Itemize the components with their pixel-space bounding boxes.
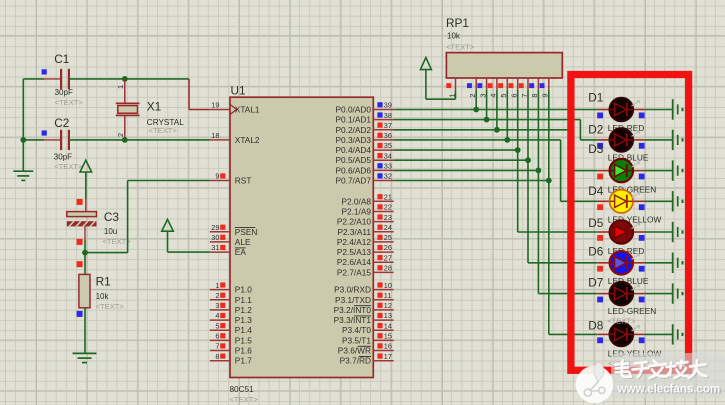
pin 29 PSEN bbox=[210, 223, 258, 237]
svg-text:PSEN: PSEN bbox=[235, 227, 258, 237]
pin 39 P0.0/AD0 bbox=[335, 101, 393, 115]
svg-text:2: 2 bbox=[215, 291, 219, 300]
svg-text:D8: D8 bbox=[588, 319, 604, 333]
wire RP1 pin 5 column bbox=[506, 90, 508, 140]
svg-text:13: 13 bbox=[384, 311, 392, 320]
svg-text:11: 11 bbox=[384, 291, 392, 300]
wire P0.7 to pull-up bbox=[394, 180, 549, 182]
wire D4 cathode bbox=[645, 200, 673, 202]
node junction crystal bottom bbox=[122, 137, 128, 143]
highlight box bbox=[571, 75, 689, 371]
watermark logo bbox=[576, 362, 614, 404]
pin 33 P0.6/AD6 bbox=[335, 162, 393, 176]
svg-text:27: 27 bbox=[384, 253, 392, 262]
svg-text:10k: 10k bbox=[447, 32, 461, 41]
wire RP1 pin 3 column bbox=[486, 90, 488, 120]
svg-text:10u: 10u bbox=[104, 227, 117, 236]
svg-text:26: 26 bbox=[384, 243, 392, 252]
pin 13 P3.3/INT1 bbox=[334, 311, 394, 325]
svg-text:29: 29 bbox=[211, 223, 219, 232]
power terminal RP1 bbox=[420, 58, 455, 100]
svg-text:10k: 10k bbox=[96, 292, 110, 301]
svg-text:12: 12 bbox=[384, 301, 392, 310]
ground terminal D2 bbox=[673, 130, 683, 150]
svg-text:P2.1/A9: P2.1/A9 bbox=[341, 207, 371, 217]
svg-text:32: 32 bbox=[384, 172, 392, 181]
svg-text:XTAL2: XTAL2 bbox=[235, 135, 260, 145]
svg-text:30pF: 30pF bbox=[55, 88, 73, 97]
svg-text:21: 21 bbox=[384, 193, 392, 202]
pin 8 RP1 bbox=[529, 78, 539, 98]
pin 21 P2.0/A8 bbox=[341, 193, 393, 207]
pin 16 P3.6/WR bbox=[338, 342, 394, 356]
svg-text:XTAL1: XTAL1 bbox=[235, 105, 260, 115]
svg-text:23: 23 bbox=[384, 213, 392, 222]
svg-text:EA: EA bbox=[235, 247, 247, 257]
resistor R1 bbox=[77, 253, 125, 354]
svg-text:P3.1/TXD: P3.1/TXD bbox=[335, 295, 371, 305]
svg-text:P2.4/A12: P2.4/A12 bbox=[337, 237, 372, 247]
svg-text:P3.4/T0: P3.4/T0 bbox=[342, 325, 371, 335]
svg-text:D1: D1 bbox=[588, 91, 603, 105]
wire D7 cathode bbox=[645, 293, 673, 295]
pin 2 P1.1 bbox=[210, 291, 252, 305]
svg-text:38: 38 bbox=[384, 111, 392, 120]
LED D6 LED-BLUE bbox=[588, 245, 649, 286]
LED D5 LED-RED bbox=[588, 216, 645, 256]
svg-text:10: 10 bbox=[384, 281, 392, 290]
node P0.0 junction bbox=[473, 107, 479, 113]
svg-text:16: 16 bbox=[384, 342, 392, 351]
wire column to D7 bbox=[538, 170, 597, 293]
svg-text:P1.6: P1.6 bbox=[235, 346, 252, 356]
power terminal VCC reset bbox=[80, 160, 92, 199]
wire P0.4 to pull-up bbox=[394, 149, 518, 151]
pin 32 P0.7/AD7 bbox=[335, 172, 393, 186]
svg-text:80C51: 80C51 bbox=[230, 385, 255, 394]
wire RP1 pin 7 column bbox=[527, 90, 529, 161]
capacitor C1 bbox=[23, 52, 125, 107]
pin 30 ALE bbox=[210, 233, 251, 247]
svg-text:37: 37 bbox=[384, 121, 392, 130]
wire RP1 pin 8 column bbox=[537, 90, 539, 171]
pin 15 P3.5/T1 bbox=[342, 332, 394, 346]
node junction RST bbox=[82, 250, 88, 256]
wire P0.3 to D4 bbox=[394, 140, 598, 201]
pin 26 P2.5/A13 bbox=[337, 243, 394, 257]
pin 5 RP1 bbox=[498, 78, 508, 98]
svg-text:D6: D6 bbox=[588, 245, 604, 259]
svg-text:9: 9 bbox=[215, 172, 219, 181]
wire left rail C1-C2-ground bbox=[22, 79, 24, 171]
svg-text:35: 35 bbox=[384, 141, 392, 150]
svg-text:33: 33 bbox=[384, 162, 392, 171]
wire D2 cathode bbox=[645, 139, 673, 141]
svg-text:P0.3/AD3: P0.3/AD3 bbox=[335, 135, 371, 145]
svg-text:ALE: ALE bbox=[235, 237, 251, 247]
node junction crystal top bbox=[122, 76, 128, 82]
pin 14 P3.4/T0 bbox=[342, 321, 394, 335]
svg-text:34: 34 bbox=[384, 151, 392, 160]
wire column to D6 bbox=[528, 160, 597, 263]
svg-text:36: 36 bbox=[384, 131, 392, 140]
node P0.4 junction bbox=[515, 147, 521, 153]
svg-text:P0.6/AD6: P0.6/AD6 bbox=[335, 165, 371, 175]
pin 9 RST bbox=[210, 172, 252, 186]
svg-text:P1.5: P1.5 bbox=[235, 335, 252, 345]
pin 8 P1.7 bbox=[210, 352, 252, 366]
svg-text:28: 28 bbox=[384, 264, 392, 273]
pin 28 P2.7/A15 bbox=[337, 264, 394, 278]
svg-text:RST: RST bbox=[235, 176, 252, 186]
wire C1 row to XTAL1 bbox=[125, 79, 210, 110]
watermark backdrop bbox=[611, 353, 725, 398]
node P0.5 junction bbox=[525, 157, 531, 163]
ground terminal D5 bbox=[673, 222, 683, 242]
svg-text:P1.0: P1.0 bbox=[235, 285, 252, 295]
capacitor C2 bbox=[23, 116, 125, 171]
LED D4 LED-YELLOW bbox=[588, 184, 661, 224]
wire P0.1 to D2 bbox=[394, 120, 598, 140]
svg-text:<TEXT>: <TEXT> bbox=[230, 395, 259, 404]
node P0.2 junction bbox=[494, 127, 500, 133]
svg-text:7: 7 bbox=[215, 342, 219, 351]
svg-text:P3.0/RXD: P3.0/RXD bbox=[334, 285, 371, 295]
svg-text:1: 1 bbox=[116, 85, 125, 89]
pin 24 P2.3/A11 bbox=[337, 223, 393, 237]
svg-text:19: 19 bbox=[211, 101, 219, 110]
pin 17 P3.7/RD bbox=[340, 352, 394, 366]
pin 7 P1.6 bbox=[210, 342, 252, 356]
svg-text:P1.7: P1.7 bbox=[235, 356, 252, 366]
svg-text:RP1: RP1 bbox=[446, 16, 469, 30]
svg-text:P3.7/RD: P3.7/RD bbox=[340, 356, 371, 366]
wire D3 cathode bbox=[645, 170, 673, 172]
pin 3 P1.2 bbox=[210, 301, 252, 315]
pin 4 P1.3 bbox=[210, 311, 252, 325]
svg-text:P1.3: P1.3 bbox=[235, 315, 252, 325]
wire crystal to XTAL2 bbox=[125, 139, 210, 141]
pin 1 RP1 bbox=[446, 78, 456, 98]
wire RP1 pin 4 column bbox=[496, 90, 498, 130]
pin 10 P3.0/RXD bbox=[334, 281, 393, 295]
svg-text:15: 15 bbox=[384, 332, 392, 341]
pin 9 RP1 bbox=[540, 78, 550, 98]
pin 23 P2.2/A10 bbox=[337, 213, 394, 227]
wire column to D8 bbox=[549, 181, 597, 335]
svg-text:C1: C1 bbox=[54, 52, 69, 66]
svg-text:25: 25 bbox=[384, 233, 392, 242]
wire RST to chip bbox=[85, 181, 210, 253]
svg-text:2: 2 bbox=[116, 133, 125, 137]
svg-text:www.elecfans.com: www.elecfans.com bbox=[616, 381, 720, 395]
svg-text:P0.2/AD2: P0.2/AD2 bbox=[335, 125, 371, 135]
ground terminal D8 bbox=[673, 324, 683, 344]
pin 36 P0.3/AD3 bbox=[335, 131, 393, 145]
svg-text:1: 1 bbox=[215, 281, 219, 290]
svg-text:LED-GREEN: LED-GREEN bbox=[608, 306, 656, 316]
svg-text:14: 14 bbox=[384, 321, 392, 330]
svg-text:P1.1: P1.1 bbox=[235, 295, 252, 305]
pin 11 P3.1/TXD bbox=[335, 291, 394, 305]
pin 5 P1.4 bbox=[210, 321, 252, 335]
LED D3 LED-GREEN bbox=[588, 142, 656, 195]
ground terminal D1 bbox=[673, 99, 683, 120]
svg-text:P3.2/INT0: P3.2/INT0 bbox=[334, 305, 372, 315]
svg-text:P0.7/AD7: P0.7/AD7 bbox=[335, 176, 371, 186]
svg-text:18: 18 bbox=[211, 131, 219, 140]
svg-text:6: 6 bbox=[215, 332, 219, 341]
pin 31 EA bbox=[210, 243, 247, 257]
svg-text:P3.6/WR: P3.6/WR bbox=[338, 346, 371, 356]
pin 7 RP1 bbox=[519, 78, 529, 98]
svg-text:3: 3 bbox=[215, 301, 219, 310]
node P0.1 junction bbox=[484, 117, 490, 123]
ground terminal D3 bbox=[673, 160, 683, 180]
node P0.7 junction bbox=[546, 178, 552, 184]
ground terminal D4 bbox=[673, 191, 683, 211]
node P0.6 junction bbox=[536, 168, 542, 174]
svg-text:D3: D3 bbox=[588, 142, 604, 156]
pin 37 P0.2/AD2 bbox=[335, 121, 393, 135]
svg-text:<TEXT>: <TEXT> bbox=[607, 317, 636, 326]
svg-text:D5: D5 bbox=[588, 216, 604, 230]
svg-text:D7: D7 bbox=[588, 275, 603, 289]
svg-text:P0.1/AD1: P0.1/AD1 bbox=[335, 115, 371, 125]
wire P0.2 to D3 bbox=[394, 130, 598, 171]
wire P0.5 to pull-up bbox=[394, 159, 528, 161]
pin 6 P1.5 bbox=[210, 332, 252, 346]
pin 3 RP1 bbox=[477, 78, 487, 98]
svg-text:P3.3/INT1: P3.3/INT1 bbox=[334, 315, 372, 325]
LED D7 LED-GREEN bbox=[588, 275, 656, 316]
svg-text:P0.0/AD0: P0.0/AD0 bbox=[335, 105, 371, 115]
wire RP1 pin 2 column bbox=[475, 90, 477, 110]
pin 1 P1.0 bbox=[210, 281, 252, 295]
svg-text:P1.2: P1.2 bbox=[235, 305, 252, 315]
wire column to D5 bbox=[518, 150, 598, 232]
node junction C2 left bbox=[20, 137, 26, 143]
node P0.3 junction bbox=[504, 137, 510, 143]
ground terminal D6 bbox=[673, 253, 683, 273]
wire D6 cathode bbox=[645, 262, 673, 264]
wire RP1 pin 9 column bbox=[548, 90, 550, 181]
wire P0.6 to pull-up bbox=[394, 169, 539, 171]
svg-text:P2.7/A15: P2.7/A15 bbox=[337, 267, 372, 277]
pin 22 P2.1/A9 bbox=[341, 203, 393, 217]
svg-text:5: 5 bbox=[215, 321, 219, 330]
svg-text:D2: D2 bbox=[588, 123, 603, 137]
capacitor C3 bbox=[67, 199, 131, 253]
ground terminal D7 bbox=[673, 283, 683, 303]
svg-text:C2: C2 bbox=[54, 116, 69, 130]
ground below R1 bbox=[73, 353, 97, 362]
svg-text:P2.6/A14: P2.6/A14 bbox=[337, 257, 372, 267]
resistor pack RP1 bbox=[446, 16, 562, 78]
svg-text:U1: U1 bbox=[231, 83, 246, 97]
watermark url bbox=[616, 381, 721, 396]
wire D5 cathode bbox=[645, 231, 673, 233]
svg-text:P1.4: P1.4 bbox=[235, 325, 252, 335]
svg-text:8: 8 bbox=[215, 352, 219, 361]
svg-text:X1: X1 bbox=[147, 100, 161, 114]
pin 4 RP1 bbox=[488, 78, 498, 98]
svg-text:24: 24 bbox=[384, 223, 392, 232]
pin 6 RP1 bbox=[509, 78, 519, 98]
pin 18 XTAL2 bbox=[210, 131, 260, 145]
svg-text:<TEXT>: <TEXT> bbox=[149, 126, 178, 135]
ground left bbox=[13, 171, 33, 180]
microcontroller U1 80C51 bbox=[230, 83, 374, 403]
pin 38 P0.1/AD1 bbox=[335, 111, 393, 125]
LED D2 LED-BLUE bbox=[588, 123, 649, 163]
svg-text:39: 39 bbox=[384, 101, 392, 110]
wire D1 cathode bbox=[645, 109, 673, 111]
svg-text:30: 30 bbox=[211, 233, 219, 242]
svg-text:P2.5/A13: P2.5/A13 bbox=[337, 247, 372, 257]
svg-text:P0.4/AD4: P0.4/AD4 bbox=[335, 145, 371, 155]
svg-text:<TEXT>: <TEXT> bbox=[96, 302, 125, 311]
pin 19 XTAL1 bbox=[210, 101, 260, 115]
svg-text:P2.3/A11: P2.3/A11 bbox=[337, 227, 371, 237]
crystal X1 bbox=[116, 79, 184, 140]
pin 25 P2.4/A12 bbox=[337, 233, 394, 247]
svg-text:31: 31 bbox=[211, 243, 219, 252]
svg-text:4: 4 bbox=[215, 311, 219, 320]
svg-text:30pF: 30pF bbox=[54, 153, 72, 162]
pin 12 P3.2/INT0 bbox=[334, 301, 394, 315]
svg-text:R1: R1 bbox=[96, 274, 111, 288]
svg-text:<TEXT>: <TEXT> bbox=[55, 98, 84, 107]
svg-text:22: 22 bbox=[384, 203, 392, 212]
svg-text:17: 17 bbox=[384, 352, 392, 361]
pin 34 P0.5/AD5 bbox=[335, 151, 393, 165]
wire P0.0 to D1 bbox=[394, 109, 598, 111]
svg-text:<TEXT>: <TEXT> bbox=[446, 43, 475, 52]
watermark chinese strokes bbox=[617, 361, 708, 379]
LED D1 LED-RED bbox=[588, 91, 645, 133]
power terminal EA bbox=[162, 219, 210, 252]
svg-text:D4: D4 bbox=[588, 184, 604, 198]
pin 2 RP1 bbox=[467, 78, 477, 98]
wire D8 cathode bbox=[645, 333, 673, 335]
svg-text:C3: C3 bbox=[104, 210, 120, 224]
svg-text:P3.5/T1: P3.5/T1 bbox=[342, 335, 371, 345]
svg-text:P2.0/A8: P2.0/A8 bbox=[341, 196, 371, 206]
pin 27 P2.6/A14 bbox=[337, 253, 394, 267]
wire RP1 pin 6 column bbox=[517, 90, 519, 150]
pin 35 P0.4/AD4 bbox=[335, 141, 393, 155]
LED D8 LED-YELLOW bbox=[588, 319, 661, 359]
svg-text:P0.5/AD5: P0.5/AD5 bbox=[335, 155, 371, 165]
svg-text:P2.2/A10: P2.2/A10 bbox=[337, 217, 372, 227]
svg-text:<TEXT>: <TEXT> bbox=[54, 162, 83, 171]
